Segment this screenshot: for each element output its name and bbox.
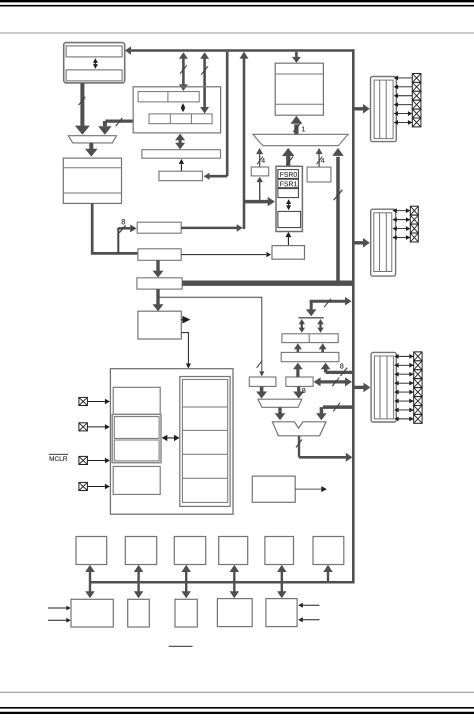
block: peripheral bottom 4 <box>217 599 252 627</box>
wire: peripheral bus connector 3 <box>181 565 191 598</box>
wire: PCLATH-PC bidirectional arrow <box>181 103 186 112</box>
block: peripheral bottom 5 <box>266 599 297 627</box>
wire: bar to status reg bidir right <box>317 319 323 333</box>
wire: reg2 to status right <box>319 343 327 352</box>
wire: program memory output down-right <box>92 203 137 253</box>
wire: inputs to bottom box 1 <box>48 606 71 623</box>
wire: data bus right vertical <box>352 49 355 583</box>
wire: data bus to literal reg (8-bit) <box>321 363 352 376</box>
wire: riser to data bus (x244) <box>240 52 249 229</box>
wire: data bus to PCLATH (bidirectional) <box>179 52 188 91</box>
wire: program bus riser to address mux <box>332 148 343 285</box>
block: W register <box>286 377 313 386</box>
wire: reg2 to status left <box>294 343 302 352</box>
wire: RAM addr to address mux (thin) <box>181 252 271 257</box>
value label: 8 <box>122 219 126 224</box>
block: register file rows <box>182 379 227 502</box>
value label: 4 (right) <box>321 158 325 163</box>
value label: 1 <box>302 127 305 132</box>
wire: BSR to FSR container (up) <box>285 232 291 246</box>
wire: bottom border rule 2 <box>0 712 474 714</box>
block: RAM address register <box>138 249 181 260</box>
wire: riser branch to FSR (thick) <box>244 197 275 206</box>
register: address buffer <box>278 211 301 227</box>
wire: PORTB pin lines <box>392 208 410 240</box>
wire: FSR internal bidirectional arrow <box>286 199 291 210</box>
block: peripheral bottom 3 <box>175 599 197 627</box>
wire: PORTC pin lines <box>394 354 414 421</box>
wire: oscillator underline mark <box>169 645 193 647</box>
wire: top border rule 2 <box>0 5 474 7</box>
block: PORTA registers <box>374 80 393 139</box>
wire: decode output stub right <box>181 316 190 324</box>
wire: bar to status reg bidir left <box>299 319 305 333</box>
wire: program bus (wide) <box>182 281 354 286</box>
wire: data bus to PORTC <box>355 383 371 393</box>
block: interrupt latch right <box>307 167 331 182</box>
block: status latch left <box>251 167 269 176</box>
block: PORTB (outer) <box>371 209 396 276</box>
wire: ALU output to data bus <box>296 436 352 462</box>
pin MCLR <box>79 456 110 464</box>
wire: data bus to PORTB <box>355 238 370 248</box>
wire: mux M1 output <box>85 143 98 157</box>
wire: mux M3 to ALU <box>275 407 286 420</box>
block: oscillator container <box>112 414 161 462</box>
wire: PC to data bus (bidirectional) <box>200 52 209 113</box>
register FSR0 <box>278 170 299 179</box>
block: timing and control group (outer) <box>110 369 233 515</box>
block: FSR container <box>276 166 302 231</box>
value label: 8 (literal) <box>340 364 343 369</box>
wire: data bus to ALU right input <box>316 403 352 420</box>
wire: header separator rule <box>0 32 474 34</box>
value label: 4 (left) <box>261 158 265 163</box>
wire: peripheral 6 bus connector <box>323 565 333 582</box>
wire: footer separator rule <box>0 691 474 693</box>
wire: status bar <box>298 317 323 319</box>
pin OSC2 <box>79 423 110 431</box>
wire: stack-PC bidirectional arrow <box>93 58 98 68</box>
wire: branch up to status latch <box>256 177 263 201</box>
wire: instruction reg to program bus <box>179 159 184 171</box>
wire: watchdog output right <box>295 486 327 492</box>
block: peripheral top 3 <box>174 537 205 565</box>
block: bank select register <box>272 246 305 260</box>
block: control box B <box>114 417 159 439</box>
wire: group to wide box (thick bidir) <box>175 134 185 150</box>
wire: decode branch to status (thin) <box>159 297 265 376</box>
block: program counter row <box>66 70 122 81</box>
block: program flash memory (3 rows) <box>275 63 323 115</box>
block: address latch <box>137 222 181 233</box>
pins: PORTB I/O pads <box>410 206 418 242</box>
wire: peripheral bus connector 2 <box>134 565 144 598</box>
wire: mux M2 input 3 (4-bit) <box>316 148 323 167</box>
block: program bus latch (wide) <box>142 150 221 159</box>
wire: RAM addr down (thick) <box>153 260 164 277</box>
wire: peripheral bus connector 1 <box>85 565 95 598</box>
block: peripheral top 5 <box>265 537 294 565</box>
ALU U1 <box>272 422 326 436</box>
wire: data bus bottom segment <box>90 581 355 584</box>
wire: PORTA pin lines <box>394 76 413 125</box>
wire: mux M2 output up <box>290 116 302 135</box>
wire: status bus corner to data bus <box>306 297 352 316</box>
wire: 8-bit branch to address latch <box>118 225 136 254</box>
block: program memory (3 rows) <box>63 158 121 203</box>
wire: instruction latch down (thick) <box>153 289 164 311</box>
mux M1: program address mux <box>68 136 116 143</box>
wire: W reg to ALU mux (8-bit) <box>293 386 304 398</box>
wire: data bus into program flash <box>292 52 301 63</box>
block: instruction latch <box>137 278 182 289</box>
wire: top border rule 1 <box>0 0 474 2</box>
block: control box A <box>113 387 160 414</box>
wire: data bus to PORTA <box>355 104 370 114</box>
block: PC latch group (outer) <box>133 87 220 133</box>
wire: data bus top segment into PC block <box>125 46 354 55</box>
block: PORTA (outer) <box>371 77 397 142</box>
block: PORTC (outer) <box>371 352 396 422</box>
pin OSC1 <box>79 397 110 405</box>
wire: mux M2 input 1 (4-bit) <box>256 148 263 167</box>
wire: PCL to address mux (thick) <box>98 118 133 135</box>
block: peripheral top 1 <box>76 537 107 565</box>
wire: W reg to literal reg (up) <box>293 363 303 377</box>
pin VDD/VSS <box>79 482 110 490</box>
block: peripheral bottom 2 <box>128 599 150 627</box>
value label: 8 (W) <box>302 388 305 393</box>
register FSR1 <box>278 179 299 188</box>
mux M2: RAM address mux <box>253 134 348 145</box>
block: PORTC registers <box>374 356 393 419</box>
block: status output latch <box>249 377 276 386</box>
block: peripheral top 6 <box>313 537 344 565</box>
wire: decode to port logic (thin, down) <box>181 333 191 369</box>
wire: data bus drop to instruction register <box>204 52 228 180</box>
block: control box C <box>114 440 159 461</box>
wire: peripheral bus connector 5 <box>277 565 287 598</box>
wire: address latch to riser <box>181 224 243 232</box>
pins: PORTC I/O pads <box>414 352 422 423</box>
wire: bottom border rule 1 <box>0 707 474 709</box>
wire: PC to address mux (thick) <box>75 83 90 135</box>
block: control box D <box>113 466 160 494</box>
block: peripheral top 2 <box>125 537 156 565</box>
register: indirect address <box>278 189 299 198</box>
block: instruction decode and control <box>138 311 181 339</box>
block: literal register (wide) <box>281 352 339 361</box>
wire: mux M2 input 2 (FSR, thick) <box>282 148 295 166</box>
net label: MCLR (with overline) <box>49 454 68 461</box>
wire: peripheral bus connector 4 <box>230 565 240 598</box>
mux M3: ALU input mux <box>258 399 302 407</box>
block: stack register row <box>66 46 122 57</box>
block: peripheral bottom 1 <box>71 599 113 627</box>
block: register file (outer) <box>180 377 230 507</box>
block: PC row (3 cells) <box>149 114 212 124</box>
pins: PORTA I/O pads <box>412 74 421 127</box>
block: program counter / stack (outer) <box>64 43 125 83</box>
block: status register (2 cells) <box>282 334 338 343</box>
wire: inputs to bottom box 5 <box>298 603 319 623</box>
block: watchdog/timer box <box>252 476 295 502</box>
block: PORTB registers <box>374 213 392 272</box>
wire: status latch to ALU mux <box>256 386 267 398</box>
block: peripheral top 4 <box>219 537 248 565</box>
wire: W reg to data bus (bidirectional) <box>314 377 352 386</box>
wire: control to register file (bidirectional) <box>162 435 180 441</box>
block: instruction register <box>159 171 202 181</box>
block: PCLATH row (2 cells) <box>138 92 199 102</box>
